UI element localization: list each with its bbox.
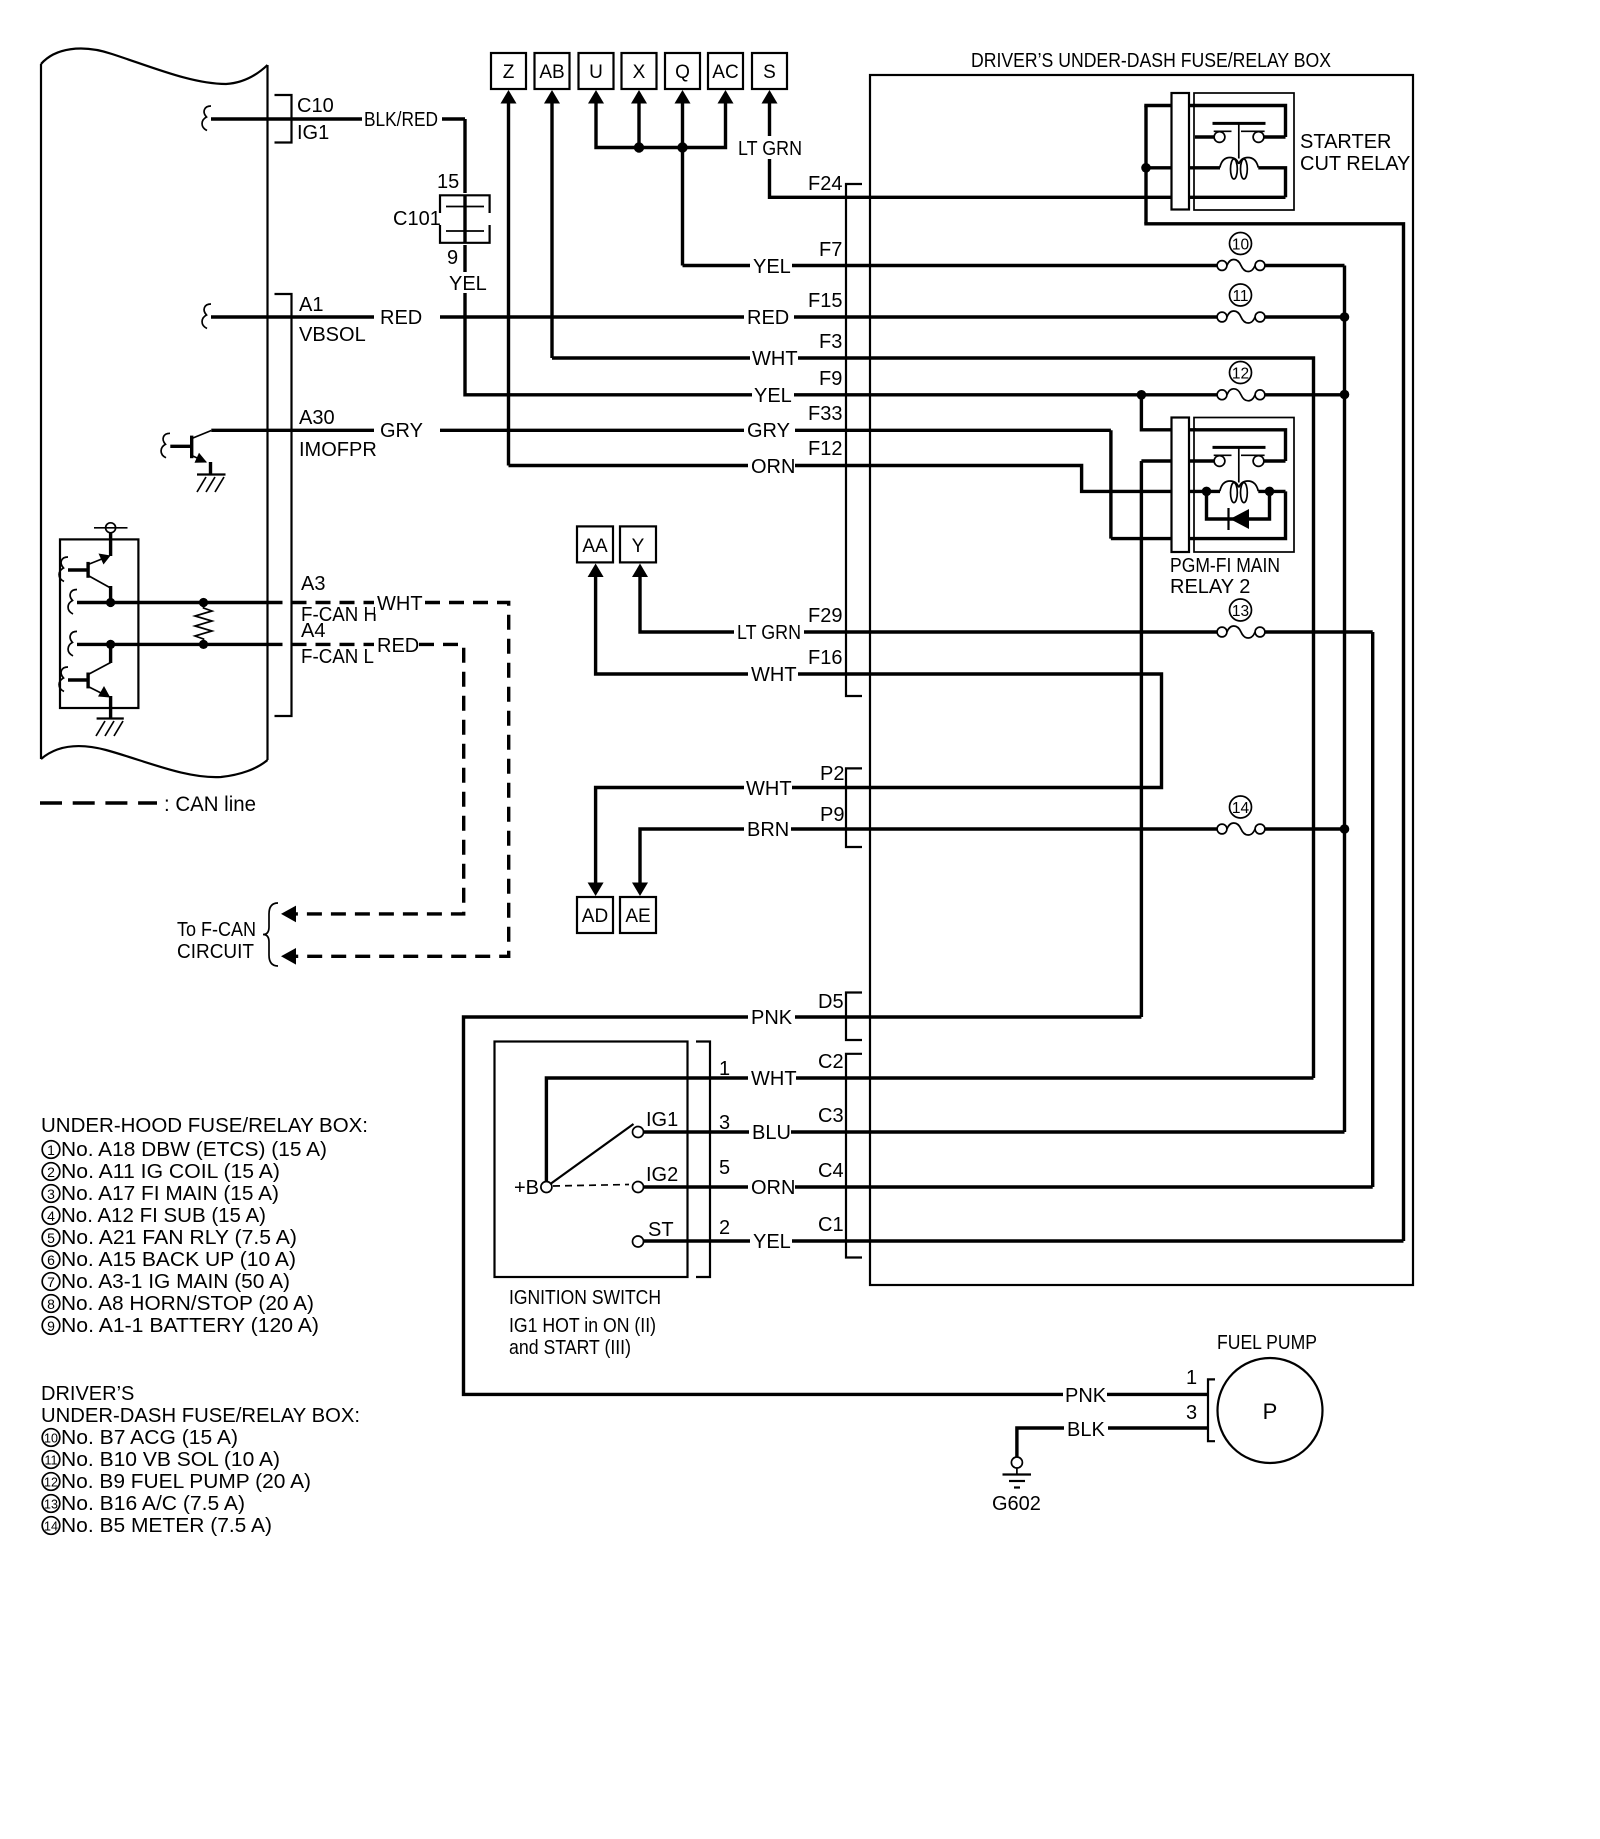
connector box AA xyxy=(577,526,613,562)
pin bracket P2/P9 xyxy=(846,768,862,847)
svg-text:G602: G602 xyxy=(992,1493,1041,1515)
wire A30 IMOFPR (GRY) from transistor to F33 xyxy=(211,429,1111,432)
node: CANL junction dot xyxy=(106,640,115,649)
wire fuse13 output down to C4 row xyxy=(1371,632,1374,1187)
svg-text:9: 9 xyxy=(447,247,458,269)
svg-text:A30: A30 xyxy=(299,407,335,429)
wire C4 row xyxy=(870,1185,1373,1188)
svg-text:IMOFPR: IMOFPR xyxy=(299,439,377,461)
wire ORN from Z stem to F12 xyxy=(509,464,871,467)
connector box AB xyxy=(535,53,570,89)
svg-text:YEL: YEL xyxy=(753,1231,791,1253)
pin bracket C2..C1 xyxy=(846,1054,862,1258)
starter relay contact circles xyxy=(1214,132,1225,143)
arrow into Y xyxy=(632,564,648,578)
node: relay2 coil left dot xyxy=(1202,487,1212,497)
svg-text:Z: Z xyxy=(503,62,515,83)
svg-text:LT GRN: LT GRN xyxy=(738,138,802,160)
connector C101 symbol xyxy=(438,193,492,245)
node: resistor top dot xyxy=(199,598,208,607)
wire F3 WHT vertical down to C2 xyxy=(870,358,1314,1078)
IG2 contact circle xyxy=(633,1182,644,1193)
svg-text:AC: AC xyxy=(712,62,738,83)
arrow into X xyxy=(631,90,647,104)
svg-text:F-CAN L: F-CAN L xyxy=(301,646,374,668)
wire F-CAN H dashed (WHT) from A3 to F-CAN circuit xyxy=(268,601,375,604)
svg-text:WHT: WHT xyxy=(751,1068,797,1090)
svg-text:YEL: YEL xyxy=(449,273,487,295)
relay2 contact arms xyxy=(1214,454,1232,456)
svg-text:ORN: ORN xyxy=(751,1177,795,1199)
ignition switch box xyxy=(495,1042,688,1278)
wire F33 GRY elbow to relay2 bottom bar xyxy=(1109,430,1112,538)
connector box AE xyxy=(620,897,656,933)
wire BLK from fuel pump to G602 xyxy=(1017,1428,1208,1457)
svg-text:14: 14 xyxy=(44,1520,58,1534)
svg-text:F16: F16 xyxy=(808,647,842,669)
svg-text:C4: C4 xyxy=(818,1160,844,1182)
label LT GRN (F29) xyxy=(734,620,804,643)
curl at left end of F-CAN H xyxy=(68,590,77,615)
svg-text:F9: F9 xyxy=(819,368,842,390)
curl at left end of A1 wire xyxy=(202,304,211,329)
svg-text:ST: ST xyxy=(648,1219,674,1241)
svg-text:12: 12 xyxy=(1232,366,1249,383)
svg-text:LT GRN: LT GRN xyxy=(737,622,801,644)
label YEL (F7) xyxy=(750,254,792,277)
wire starter relay coil left feed xyxy=(1146,166,1220,169)
connector box AD xyxy=(577,897,613,933)
svg-text:No. A12 FI SUB (15 A): No. A12 FI SUB (15 A) xyxy=(61,1205,266,1227)
svg-text:No. A18 DBW (ETCS) (15 A): No. A18 DBW (ETCS) (15 A) xyxy=(61,1139,327,1161)
fuse 14 (No. B5 METER) xyxy=(1217,796,1344,835)
wire IG2 to C4 row (ORN) xyxy=(644,1185,871,1188)
dashed switch arm to IG2 xyxy=(553,1185,629,1187)
svg-text:: CAN line: : CAN line xyxy=(164,793,256,816)
ground G602 xyxy=(1003,1457,1032,1488)
svg-text:GRY: GRY xyxy=(747,420,790,442)
svg-text:No. B5 METER (7.5 A): No. B5 METER (7.5 A) xyxy=(61,1515,272,1537)
arrowhead To F-CAN (lower) xyxy=(281,948,296,965)
svg-text:RED: RED xyxy=(380,307,422,329)
svg-text:1: 1 xyxy=(719,1058,730,1080)
svg-text:1: 1 xyxy=(1186,1367,1197,1389)
wire Q stem down through bus to YEL F7 row xyxy=(681,103,684,266)
svg-text:D5: D5 xyxy=(818,991,844,1013)
svg-text:AE: AE xyxy=(625,906,650,927)
transistor Q-IMOFPR inside ECM xyxy=(161,431,211,475)
label LT GRN on S stem xyxy=(736,136,804,159)
arrow into S xyxy=(762,90,778,104)
svg-text:WHT: WHT xyxy=(751,664,797,686)
label WHT (C2) xyxy=(748,1066,796,1089)
svg-text:P9: P9 xyxy=(820,804,844,826)
node: F15 to C3 vertical dot xyxy=(1340,312,1350,322)
svg-text:YEL: YEL xyxy=(754,385,792,407)
svg-text:GRY: GRY xyxy=(380,420,423,442)
wire starter relay top bar xyxy=(1144,106,1285,138)
node: coil feed dot (starter relay) xyxy=(1141,163,1151,173)
ECM A-connector bracket (A1..A4) xyxy=(275,294,292,716)
wire F-CAN L dashed (RED) from A4 to F-CAN circuit xyxy=(268,643,375,646)
label RED (near ECM) xyxy=(374,305,440,328)
item 5 xyxy=(42,1229,60,1247)
item 4 xyxy=(42,1207,60,1225)
wire X stem down to bus xyxy=(637,103,640,148)
item 10 xyxy=(42,1429,60,1447)
wire U stem down to bus xyxy=(596,103,726,148)
arrow into U xyxy=(588,90,604,104)
wire AB stem down to WHT row xyxy=(550,103,553,358)
svg-text:A4: A4 xyxy=(301,620,325,642)
wire from pull-up circle into CAN block xyxy=(109,533,112,556)
arrowhead To F-CAN (upper) xyxy=(281,906,296,923)
wire starter relay output to C1 vertical xyxy=(1144,224,1403,1241)
wire Y stem down then right to F29 (LT GRN) xyxy=(640,577,870,633)
IG1 contact circle xyxy=(633,1127,644,1138)
curl at left end of C10 wire xyxy=(202,106,211,131)
svg-text:4: 4 xyxy=(47,1208,55,1224)
wire F-CAN H inside ECM xyxy=(77,601,268,604)
label BLU (C3) xyxy=(749,1120,791,1143)
svg-text:DRIVER’S: DRIVER’S xyxy=(41,1383,134,1405)
svg-text:7: 7 xyxy=(47,1274,55,1290)
ground (IMOFPR emitter) xyxy=(197,475,226,493)
node: resistor bottom dot xyxy=(199,640,208,649)
arrow into AB xyxy=(544,90,560,104)
wire F29 LT GRN row to fuse 13 xyxy=(870,630,1217,633)
svg-text:A3: A3 xyxy=(301,573,325,595)
label YEL below C101 xyxy=(448,272,484,293)
wire C2 row to F3 vertical xyxy=(870,1076,1314,1079)
arrow into AC xyxy=(718,90,734,104)
svg-text:YEL: YEL xyxy=(753,256,791,278)
wire F16 row to P2 link vertical xyxy=(870,674,1162,788)
svg-text:BRN: BRN xyxy=(747,819,789,841)
fuel pump connector bracket xyxy=(1208,1379,1215,1441)
label WHT (F16) xyxy=(748,662,798,685)
node: fuse12 output dot on C3 vertical xyxy=(1340,390,1350,400)
svg-text:BLU: BLU xyxy=(752,1122,791,1144)
label RED (near F15) xyxy=(744,305,794,328)
label BRN (P9) xyxy=(744,817,791,840)
svg-text:PGM-FI MAIN: PGM-FI MAIN xyxy=(1170,555,1280,577)
label GRY (near ECM) xyxy=(374,418,440,441)
svg-text:No. B10 VB SOL (10 A): No. B10 VB SOL (10 A) xyxy=(61,1449,280,1471)
item 14 xyxy=(42,1517,60,1535)
switch arm to IG1 xyxy=(551,1124,634,1184)
svg-text:RELAY 2: RELAY 2 xyxy=(1170,576,1250,598)
svg-text:IG2: IG2 xyxy=(646,1164,678,1186)
ground (CAN block) xyxy=(96,719,124,737)
pin bracket D5 xyxy=(846,993,862,1041)
label YEL (near F9) xyxy=(752,383,794,406)
svg-text:C1: C1 xyxy=(818,1214,844,1236)
connector box Z xyxy=(491,53,526,89)
svg-text:14: 14 xyxy=(1232,800,1250,817)
svg-text:CIRCUIT: CIRCUIT xyxy=(177,941,254,963)
wire S stem down then right to F24 (LT GRN) xyxy=(770,103,1286,197)
svg-text:STARTER: STARTER xyxy=(1300,131,1392,153)
svg-text:2: 2 xyxy=(719,1217,730,1239)
wire IG1 to C3 row (BLU) xyxy=(644,1130,871,1133)
wire F-CAN L inside ECM xyxy=(77,643,268,646)
item 2 xyxy=(42,1163,60,1181)
label ORN (F12) xyxy=(748,454,795,477)
wire C10/IG1 from ECM to C101 (BLK/RED) xyxy=(211,117,465,120)
ECM (engine control module) torn-edge block outline xyxy=(41,49,268,778)
svg-text:VBSOL: VBSOL xyxy=(299,324,366,346)
svg-text:S: S xyxy=(763,62,776,83)
wire YEL from Q stem to F7 xyxy=(683,264,871,267)
label BLK xyxy=(1064,1416,1108,1440)
svg-text:15: 15 xyxy=(437,171,459,193)
svg-text:WHT: WHT xyxy=(377,593,423,615)
connector box Y xyxy=(620,526,656,562)
wire relay2 contact-left feed down to fuse 13 row xyxy=(1140,461,1143,1017)
svg-text:ORN: ORN xyxy=(751,456,795,478)
wire Z stem down to ORN row xyxy=(507,103,510,466)
CAN transceiver block inside ECM xyxy=(60,539,138,708)
svg-text:5: 5 xyxy=(47,1230,55,1246)
node: F9 junction dot to relay2 xyxy=(1137,390,1147,400)
wire PNK from D5 around to fuel pump xyxy=(464,1017,1209,1394)
svg-text:RED: RED xyxy=(747,307,789,329)
svg-text:F33: F33 xyxy=(808,403,842,425)
wire P2 row (WHT) to AD stem xyxy=(596,788,870,883)
svg-text:No. A11 IG COIL (15 A): No. A11 IG COIL (15 A) xyxy=(61,1161,280,1183)
svg-text:6: 6 xyxy=(47,1252,55,1268)
svg-text:IG1: IG1 xyxy=(297,122,329,144)
svg-text:FUEL PUMP: FUEL PUMP xyxy=(1217,1332,1317,1354)
svg-text:No. B16 A/C (7.5 A): No. B16 A/C (7.5 A) xyxy=(61,1493,245,1515)
wire C3 row xyxy=(870,1130,1345,1133)
svg-text:8: 8 xyxy=(47,1296,55,1312)
svg-text:F12: F12 xyxy=(808,438,842,460)
arrow into AE xyxy=(632,883,648,897)
item 11 xyxy=(42,1451,60,1469)
+B terminal circle xyxy=(541,1182,552,1193)
ST contact circle xyxy=(633,1236,644,1247)
legend dashed sample xyxy=(40,801,157,804)
node: X-bus junction dot xyxy=(634,142,644,152)
svg-text:No. A3-1 IG MAIN (50 A): No. A3-1 IG MAIN (50 A) xyxy=(61,1271,290,1293)
svg-text:IGNITION SWITCH: IGNITION SWITCH xyxy=(509,1287,661,1309)
svg-text:BLK/RED: BLK/RED xyxy=(364,109,438,131)
svg-text:WHT: WHT xyxy=(752,348,798,370)
wire +B feed up to C2 row (WHT) xyxy=(546,1078,870,1181)
svg-text:C3: C3 xyxy=(818,1105,844,1127)
arrow into Z xyxy=(501,90,517,104)
starter relay contact bar xyxy=(1213,122,1266,125)
svg-text:3: 3 xyxy=(719,1112,730,1134)
fuse 13 (No. B16 A/C) xyxy=(1217,599,1373,638)
label PNK (fuel pump) xyxy=(1063,1382,1107,1406)
relay2 contact bar xyxy=(1213,446,1266,449)
node: CANH junction dot xyxy=(106,598,115,607)
svg-text:5: 5 xyxy=(719,1157,730,1179)
driver's under-dash fuse/relay box outline xyxy=(870,75,1413,1285)
wire ST to C1 row (YEL) xyxy=(644,1239,871,1242)
connector box U xyxy=(579,53,614,89)
svg-text:U: U xyxy=(589,62,603,83)
arrow into Q xyxy=(675,90,691,104)
node: relay2 coil right dot xyxy=(1265,487,1275,497)
svg-text:DRIVER’S UNDER-DASH FUSE/RELAY: DRIVER’S UNDER-DASH FUSE/RELAY BOX xyxy=(971,50,1331,72)
svg-text:No. B9 FUEL PUMP (20 A): No. B9 FUEL PUMP (20 A) xyxy=(61,1471,311,1493)
curl at left end of F-CAN L xyxy=(68,631,77,656)
relay2 coil loops xyxy=(1220,481,1239,491)
svg-text:No. A17 FI MAIN (15 A): No. A17 FI MAIN (15 A) xyxy=(61,1183,279,1205)
svg-text:UNDER-HOOD FUSE/RELAY BOX:: UNDER-HOOD FUSE/RELAY BOX: xyxy=(41,1115,368,1137)
svg-text:BLK: BLK xyxy=(1067,1419,1105,1441)
connector box AC xyxy=(708,53,743,89)
wire F24 vertical feed to starter cut relay xyxy=(1144,106,1147,224)
label YEL (C1) xyxy=(750,1229,792,1252)
svg-text:No. A1-1 BATTERY (120 A): No. A1-1 BATTERY (120 A) xyxy=(61,1315,319,1337)
label BLK/RED xyxy=(362,107,442,130)
node: fuse14 output dot on C3 vertical xyxy=(1340,824,1350,834)
svg-text:Y: Y xyxy=(632,536,645,557)
wire relay2 contact right feed xyxy=(1264,459,1286,462)
item 3 xyxy=(42,1185,60,1203)
svg-text:11: 11 xyxy=(1232,288,1248,305)
svg-text:AD: AD xyxy=(582,906,608,927)
wire D5 PNK row to relay2 contact vertical xyxy=(870,1015,1141,1018)
wire relay2 top bar xyxy=(1194,430,1286,461)
svg-text:Q: Q xyxy=(675,62,690,83)
wire starter relay coil right feed xyxy=(1258,168,1285,198)
starter relay coil loops xyxy=(1220,158,1239,168)
wire starter relay contact right feed xyxy=(1264,135,1286,138)
arrow into AA xyxy=(588,564,604,578)
item 8 xyxy=(42,1295,60,1313)
label WHT (F3) xyxy=(750,346,798,369)
svg-text:2: 2 xyxy=(47,1164,55,1180)
svg-text:3: 3 xyxy=(1186,1402,1197,1424)
node: Q-bus junction dot xyxy=(677,142,687,152)
transistor Q-CANH (upper) xyxy=(59,554,111,603)
wire P9 BRN row to fuse 14 xyxy=(870,827,1217,830)
wire relay2 coil right feed xyxy=(1258,490,1285,493)
wire P9 row (BRN) to AE stem xyxy=(640,829,870,883)
svg-text:UNDER-DASH FUSE/RELAY BOX:: UNDER-DASH FUSE/RELAY BOX: xyxy=(41,1405,360,1427)
ECM pin C10 bracket xyxy=(275,95,292,143)
wire WHT from AB stem to F3 xyxy=(552,356,870,359)
relay2 connector bracket xyxy=(1172,418,1190,553)
svg-text:IG1 HOT in ON (II): IG1 HOT in ON (II) xyxy=(509,1315,656,1337)
svg-text:9: 9 xyxy=(47,1318,55,1334)
legend list: driver's under-dash fuse/relay box xyxy=(41,1383,360,1537)
fuse 11 (No. B10 VB SOL) xyxy=(870,284,1345,323)
svg-text:1: 1 xyxy=(47,1142,55,1158)
svg-text:No. A8 HORN/STOP (20 A): No. A8 HORN/STOP (20 A) xyxy=(61,1293,314,1315)
svg-text:No. A21 FAN RLY (7.5 A): No. A21 FAN RLY (7.5 A) xyxy=(61,1227,297,1249)
ignition switch connector bracket xyxy=(696,1042,710,1278)
connector box X xyxy=(622,53,657,89)
item 6 xyxy=(42,1251,60,1269)
svg-text:RED: RED xyxy=(377,635,419,657)
svg-text:F3: F3 xyxy=(819,331,842,353)
legend list: under-hood fuse/relay box xyxy=(41,1115,368,1337)
transistor Q-CANL (lower) xyxy=(59,644,111,718)
wire AA stem down then right to F16 (WHT) xyxy=(596,577,870,675)
item 9 xyxy=(42,1317,60,1335)
fuel pump motor circle xyxy=(1218,1358,1323,1463)
fuse 12 (No. B9 FUEL PUMP) xyxy=(870,362,1345,401)
starter relay connector bracket xyxy=(1172,93,1190,210)
item 12 xyxy=(42,1473,60,1491)
relay2 contact circles xyxy=(1214,456,1225,467)
svg-text:C10: C10 xyxy=(297,95,334,117)
svg-text:F29: F29 xyxy=(808,605,842,627)
svg-text:PNK: PNK xyxy=(751,1007,793,1029)
starter relay outer box xyxy=(1194,93,1294,210)
svg-text:+B: +B xyxy=(514,1177,539,1199)
connector box S xyxy=(752,53,787,89)
svg-text:13: 13 xyxy=(44,1498,58,1512)
item 7 xyxy=(42,1273,60,1291)
svg-text:10: 10 xyxy=(1232,237,1250,254)
pull-up terminal circle above CAN block xyxy=(94,527,128,529)
wire A1 VBSOL (RED) from ECM to F15 xyxy=(211,315,870,318)
svg-text:To F-CAN: To F-CAN xyxy=(177,919,256,941)
connector box Q xyxy=(665,53,700,89)
svg-text:13: 13 xyxy=(1232,603,1249,620)
svg-text:IG1: IG1 xyxy=(646,1109,678,1131)
svg-text:WHT: WHT xyxy=(746,778,792,800)
resistor (CAN termination) xyxy=(195,603,212,645)
fuse 10 (No. B7 ACG) xyxy=(870,233,1345,272)
relay2 outer box xyxy=(1194,418,1294,553)
svg-text:A1: A1 xyxy=(299,294,323,316)
svg-text:No. A15 BACK UP (10 A): No. A15 BACK UP (10 A) xyxy=(61,1249,296,1271)
svg-text:No. B7 ACG (15 A): No. B7 ACG (15 A) xyxy=(61,1427,238,1449)
svg-text:AA: AA xyxy=(582,536,608,557)
item 13 xyxy=(42,1495,60,1513)
label GRY (near F33) xyxy=(744,418,795,441)
svg-text:11: 11 xyxy=(45,1454,58,1468)
wire F9 elbow into PGM-FI relay 2 top bar xyxy=(1141,395,1196,430)
label WHT (P2) xyxy=(744,776,792,799)
svg-text:CUT RELAY: CUT RELAY xyxy=(1300,153,1410,175)
svg-text:12: 12 xyxy=(44,1476,58,1490)
wire starter relay contact left feed xyxy=(1195,135,1215,138)
wire BLK/RED down through C101 then YEL to F9 row xyxy=(465,119,870,395)
svg-text:P: P xyxy=(1263,1399,1278,1424)
wire relay2 bottom bar xyxy=(1111,491,1286,538)
diode D (relay2 clamp) xyxy=(1207,491,1270,530)
svg-text:PNK: PNK xyxy=(1065,1385,1107,1407)
wire fuse10 output down C3 vertical xyxy=(1343,266,1346,1133)
svg-text:X: X xyxy=(633,62,646,83)
svg-text:10: 10 xyxy=(44,1432,58,1446)
item 1 xyxy=(42,1141,60,1159)
svg-text:P2: P2 xyxy=(820,763,844,785)
svg-text:F7: F7 xyxy=(819,239,842,261)
label ORN (C4) xyxy=(748,1175,795,1198)
label PNK (D5) xyxy=(748,1005,795,1028)
svg-text:F15: F15 xyxy=(808,290,842,312)
wire F12 ORN elbow to relay2 coil left xyxy=(870,466,1220,492)
brace for To F-CAN CIRCUIT xyxy=(263,903,278,966)
svg-text:3: 3 xyxy=(47,1186,55,1202)
pin bracket F24..F16 xyxy=(846,184,862,696)
wire C1 row xyxy=(870,1239,1404,1242)
svg-text:and START (III): and START (III) xyxy=(509,1337,631,1359)
svg-text:AB: AB xyxy=(539,62,564,83)
svg-text:F24: F24 xyxy=(808,173,842,195)
